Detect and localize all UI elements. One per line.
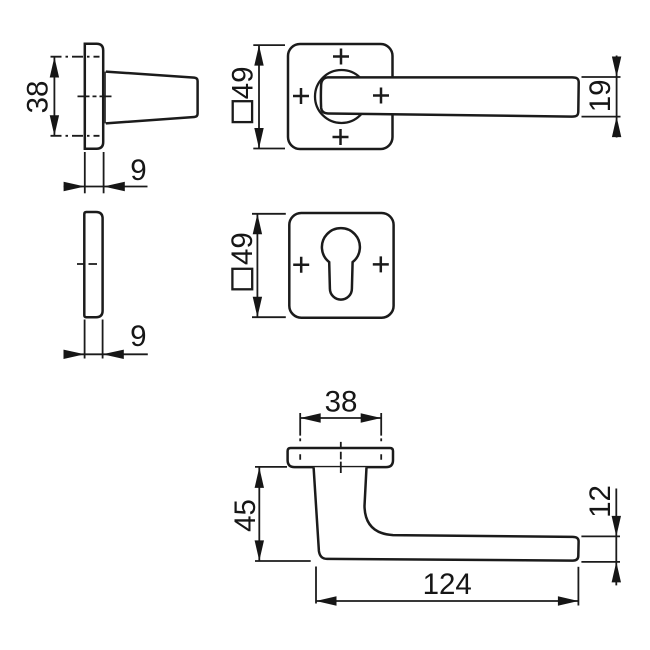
cross mark left: [293, 257, 309, 273]
arrow 49 bottom: [254, 128, 263, 149]
arrow 38 bottom: [50, 115, 59, 136]
handle neck and lever outline: [314, 467, 579, 560]
rose plate side view: [288, 448, 393, 467]
arrow 38 left: [300, 413, 321, 422]
hub circle: [315, 70, 368, 123]
extension line top of 49 dim: [252, 213, 286, 215]
tapered handle cone: [106, 72, 198, 124]
svg-text:124: 124: [423, 568, 472, 601]
arrow 49 top: [254, 45, 263, 66]
arrow 49 bottom: [253, 297, 262, 318]
extension line right of 9 dim: [103, 152, 105, 193]
arrow 19 top (outside pointing down): [612, 57, 621, 78]
dimension line 9: [64, 353, 148, 355]
dimension line 19: [616, 56, 618, 138]
square escutcheon outline: [289, 213, 393, 318]
centerline dash-dot top (38 extent): [51, 56, 100, 58]
dimension line 38: [53, 57, 55, 136]
svg-text:9: 9: [130, 154, 146, 187]
arrow 124 left: [316, 596, 337, 605]
svg-text:38: 38: [325, 385, 358, 418]
lever handle (covers circle): [321, 77, 579, 116]
square rose outline: [288, 44, 393, 149]
extension line bottom of 19 dim: [582, 116, 621, 118]
arrow 45 bottom: [255, 540, 264, 561]
arrow 49 top: [253, 214, 262, 235]
dimension line 49: [258, 45, 260, 148]
extension line bottom of 12 dim: [581, 561, 620, 563]
arrow 45 top: [255, 467, 264, 488]
dash-dot extension line right (38): [380, 413, 382, 460]
dimension line 49: [256, 214, 258, 317]
arrow 9 left (pointing right): [64, 182, 85, 191]
centerline of plate: [77, 263, 99, 265]
horizontal centerline of rose: [78, 95, 112, 97]
arrow 12 top (outside pointing down): [612, 516, 621, 537]
dash-dot extension line left (38): [299, 413, 301, 460]
rose side view outline: [85, 44, 103, 149]
extension line top of 12 dim: [581, 535, 620, 537]
extension line top of 45 dim: [255, 466, 287, 468]
extension line left of 9 dim: [84, 152, 86, 193]
svg-text:49: 49: [226, 232, 259, 265]
extension line bottom of 49 dim: [253, 148, 285, 150]
arrow 38 right: [361, 413, 382, 422]
arrow 19 bottom (outside pointing up): [612, 117, 621, 138]
cross mark left: [293, 88, 309, 104]
svg-text:45: 45: [229, 499, 262, 532]
dimension line 38: [300, 417, 381, 419]
svg-text:12: 12: [584, 485, 617, 518]
dimension line 9: [64, 186, 148, 188]
center dashed line segment upper: [340, 442, 342, 473]
arrow 9 right (pointing left): [104, 182, 125, 191]
square symbol of dim 49: [233, 101, 252, 122]
plate side view outline: [84, 212, 102, 317]
dimension line 45: [258, 467, 260, 561]
svg-text:19: 19: [584, 79, 617, 112]
cross mark bottom: [333, 129, 349, 145]
svg-text:38: 38: [22, 81, 55, 114]
extension line left of 9 dim: [84, 320, 86, 359]
cross mark right: [373, 256, 389, 272]
square symbol of dim 49: [232, 269, 252, 290]
extension line bottom of 45 dim: [255, 560, 311, 562]
handle cone base line: [105, 72, 108, 124]
arrow 38 top: [50, 57, 59, 78]
dimension line 12: [615, 489, 617, 586]
arrow 12 bottom (outside pointing up): [612, 562, 621, 583]
arrow 124 right: [558, 596, 579, 605]
dimension line 124: [316, 600, 578, 602]
centerline dash-dot bottom (38 extent): [51, 135, 100, 137]
arrow 9 right (pointing left): [103, 350, 124, 359]
extension line left of 124 dim: [315, 567, 317, 604]
cross mark top: [333, 49, 349, 65]
cross mark right: [373, 88, 389, 104]
euro profile keyhole: [322, 228, 360, 299]
svg-text:9: 9: [130, 320, 146, 353]
svg-text:49: 49: [227, 66, 260, 99]
arrow 9 left (pointing right): [64, 350, 85, 359]
extension line top of 49 dim: [253, 44, 285, 46]
extension line right of 124 dim: [577, 567, 579, 606]
extension line bottom of 49 dim: [252, 316, 286, 318]
extension line top of 19 dim: [582, 76, 621, 78]
extension line right of 9 dim: [102, 320, 104, 359]
